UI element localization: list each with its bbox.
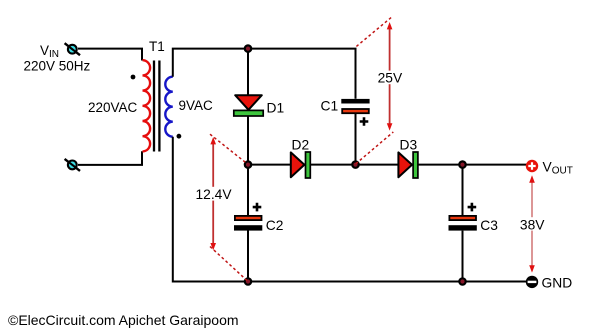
- label 38V: [518, 217, 546, 230]
- svg-text:©ElecCircuit.com Apichet Garai: ©ElecCircuit.com Apichet Garaipoom: [8, 312, 239, 328]
- junction node: C1/D2/D3: [352, 161, 358, 167]
- wire: C1 branch vertical: [355, 114, 357, 165]
- capacitor C1 (polarized, + bottom): [341, 99, 369, 126]
- 25V measurement arrow: [387, 22, 393, 131]
- capacitor C3 (polarized, + top): [449, 203, 477, 231]
- diode D3 (horizontal, cathode right): [398, 152, 418, 178]
- wire: bottom input wire from terminal 2 to primary bottom: [78, 151, 142, 165]
- transformer core: [153, 61, 155, 152]
- svg-text:C2: C2: [266, 218, 284, 233]
- label 12.4V: [194, 187, 234, 201]
- wire: top input wire from VIN terminal to primary top: [78, 49, 142, 61]
- dashed leader: node C1/D2/D3 to 25V arrow bottom: [356, 132, 394, 164]
- svg-text:D3: D3: [400, 138, 418, 153]
- svg-text:12.4V: 12.4V: [196, 187, 233, 202]
- terminal GND (-): [526, 276, 538, 288]
- svg-text:GND: GND: [542, 275, 573, 290]
- dashed leader: top rail corner to 25V arrow top: [356, 17, 391, 46]
- svg-text:D1: D1: [267, 100, 285, 115]
- junction node: D1/D2/C2: [245, 161, 251, 167]
- junction node: C3 bottom: [459, 278, 465, 284]
- primary phase dot: [131, 75, 136, 80]
- 12.4V measurement arrow: [210, 137, 216, 250]
- dashed leader: 12.4V arrow bottom to C2 bottom node: [210, 247, 247, 281]
- capacitor C2 (polarized, + top): [234, 203, 262, 231]
- dashed leader: 12.4V arrow top to node D1/D2/C2: [210, 134, 247, 163]
- secondary phase dot: [177, 134, 182, 139]
- wire: D1 branch vertical: [247, 49, 249, 96]
- wire: secondary top to top rail and across to C1 corner: [173, 49, 356, 99]
- svg-text:D2: D2: [292, 138, 310, 153]
- diode D1 (vertical, cathode down): [234, 95, 263, 116]
- junction node: D1 top on top rail: [245, 45, 251, 51]
- svg-text:25V: 25V: [378, 70, 403, 85]
- junction node: D3/C3: [459, 161, 465, 167]
- wire: middle rail from node A to VOUT terminal: [248, 164, 527, 166]
- transformer T1 secondary winding (blue, 9VAC): [165, 77, 173, 137]
- transformer T1 primary winding (red, 220VAC): [143, 60, 151, 151]
- terminal VIN bottom (input): [65, 159, 80, 171]
- svg-text:C1: C1: [321, 99, 339, 114]
- svg-text:38V: 38V: [520, 218, 545, 233]
- wire: C2 branch vertical: [247, 165, 249, 216]
- wire: secondary bottom down to bottom rail: [173, 137, 526, 282]
- svg-text:9VAC: 9VAC: [179, 98, 214, 113]
- svg-text:C3: C3: [480, 218, 498, 233]
- junction node: C2 bottom: [245, 278, 251, 284]
- terminal VOUT (+): [526, 160, 538, 172]
- wire: C3 branch vertical: [462, 165, 464, 216]
- terminal VIN top (input): [65, 43, 80, 55]
- svg-text:220V 50Hz: 220V 50Hz: [24, 59, 91, 74]
- 38V measurement arrow: [529, 175, 535, 272]
- diode D2 (horizontal, cathode right): [291, 152, 311, 178]
- svg-text:T1: T1: [149, 39, 165, 54]
- svg-text:220VAC: 220VAC: [88, 100, 138, 115]
- label 25V: [376, 71, 404, 85]
